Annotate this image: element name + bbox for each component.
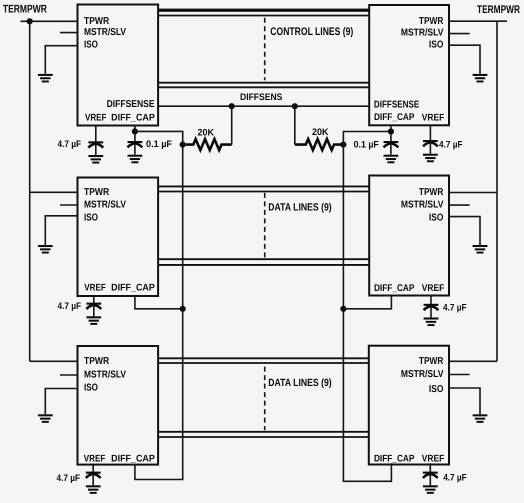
dashed bus divider bottom — [264, 367, 266, 431]
svg-text:VREF: VREF — [422, 113, 445, 124]
wire DIFF_CAP bus right vertical — [343, 132, 391, 482]
wire TERMPWR rail left — [29, 21, 31, 361]
wire DIFF_CAP U3 — [135, 296, 183, 309]
capacitor C3 0.1uF — [384, 141, 399, 163]
wire VREF U6 — [429, 463, 431, 472]
svg-text:ISO: ISO — [84, 213, 98, 224]
svg-text:VREF: VREF — [422, 283, 445, 294]
bus data lines middle bottom A — [158, 258, 369, 260]
bus data lines bottom bottom B — [158, 436, 369, 438]
ground ISO U1 — [38, 74, 53, 83]
wire ISO U4 — [449, 217, 480, 245]
resistor R1 20K — [186, 139, 232, 150]
bus control line lower A — [158, 82, 369, 84]
block U3 middle-left terminator — [78, 178, 159, 297]
wire DIFF_CAP U1 — [134, 126, 136, 143]
svg-text:DIFF_CAP: DIFF_CAP — [111, 454, 155, 465]
capacitor C8 4.7uF — [423, 472, 438, 494]
svg-text:DIFF_CAP: DIFF_CAP — [374, 454, 415, 465]
svg-text:DIFFSENSE: DIFFSENSE — [374, 100, 420, 111]
svg-text:VREF: VREF — [84, 454, 106, 465]
block U6 bottom-right terminator — [369, 346, 449, 465]
svg-text:DATA LINES (9): DATA LINES (9) — [268, 377, 331, 389]
svg-text:20K: 20K — [312, 127, 329, 138]
node dot DIFF_CAP U3 tap — [180, 306, 186, 312]
wire DIFFSENS net — [158, 105, 369, 107]
node dot TERMPWR left — [27, 18, 33, 24]
ground ISO U3 — [38, 245, 53, 254]
svg-text:CONTROL LINES (9): CONTROL LINES (9) — [270, 26, 353, 38]
capacitor C5 4.7uF — [86, 303, 101, 325]
block U1 top-left terminator — [78, 5, 159, 126]
block U4 middle-right terminator — [369, 176, 449, 296]
svg-text:DIFFSENSE: DIFFSENSE — [107, 99, 155, 110]
svg-text:DIFF_CAP: DIFF_CAP — [111, 113, 155, 124]
wire ISO U3 — [45, 216, 77, 245]
svg-text:TPWR: TPWR — [84, 356, 110, 367]
svg-text:TERMPWR: TERMPWR — [3, 3, 47, 15]
wire TPWR U1 — [20, 20, 77, 22]
bus control lines top pair — [158, 9, 369, 12]
ground ISO U5 — [38, 414, 53, 423]
svg-text:MSTR/SLV: MSTR/SLV — [84, 27, 126, 38]
wire DIFF_CAP U4 — [343, 296, 391, 309]
svg-text:TPWR: TPWR — [84, 16, 110, 27]
bus data lines middle bottom B — [158, 264, 369, 266]
svg-text:ISO: ISO — [429, 40, 444, 51]
wire R1 to DIFFSENS — [231, 106, 233, 144]
svg-text:4.7 µF: 4.7 µF — [439, 139, 463, 150]
svg-text:DIFF_CAP: DIFF_CAP — [374, 283, 415, 294]
svg-text:DATA LINES (9): DATA LINES (9) — [268, 202, 331, 214]
svg-text:VREF: VREF — [84, 283, 106, 294]
svg-text:TPWR: TPWR — [419, 356, 444, 367]
node dot DIFF_CAP U4 tap — [340, 306, 346, 312]
pin stub MSTR/SLV U6 — [449, 374, 470, 376]
wire TPWR U5 — [30, 360, 78, 362]
svg-text:ISO: ISO — [429, 384, 444, 395]
capacitor C6 4.7uF — [424, 304, 439, 326]
wire R2 to DIFFSENS — [294, 106, 296, 144]
bus data lines bottom top B — [158, 362, 369, 364]
wire VREF U5 — [92, 465, 94, 473]
node dot DIFFSENS left — [229, 103, 235, 109]
svg-text:TERMPWR: TERMPWR — [477, 4, 520, 16]
wire DIFF_CAP bus left vertical — [135, 131, 183, 479]
resistor R2 20K — [295, 139, 344, 150]
svg-text:0.1 µF: 0.1 µF — [354, 140, 379, 151]
svg-text:ISO: ISO — [429, 213, 444, 224]
node dot DIFF_CAP U2 junction — [388, 128, 394, 134]
svg-text:20K: 20K — [198, 128, 215, 139]
block U5 bottom-left terminator — [78, 346, 159, 465]
pin stub MSTR/SLV U3 — [60, 204, 78, 206]
wire ISO U2 — [449, 45, 480, 74]
wire TPWR U6 — [449, 360, 497, 362]
bus data lines middle top A — [158, 185, 369, 187]
wire ISO U1 — [45, 46, 77, 74]
capacitor C7 4.7uF — [86, 472, 101, 494]
dashed bus divider middle — [264, 193, 266, 258]
svg-text:4.7 µF: 4.7 µF — [443, 472, 467, 483]
bus control line lower B — [158, 86, 369, 88]
wire VREF U2 — [429, 125, 431, 141]
svg-text:DIFF_CAP: DIFF_CAP — [111, 283, 155, 294]
node dot DIFF_CAP U1 junction — [132, 128, 138, 134]
bus data lines bottom bottom A — [158, 431, 369, 433]
svg-text:DIFFSENS: DIFFSENS — [240, 92, 282, 103]
node dot resistor tap left — [180, 142, 186, 148]
ground ISO U2 — [473, 74, 488, 83]
svg-text:VREF: VREF — [422, 454, 445, 465]
svg-text:ISO: ISO — [84, 39, 98, 50]
bus data lines middle top B — [158, 191, 369, 193]
svg-text:TPWR: TPWR — [84, 187, 110, 198]
pin stub MSTR/SLV U5 — [60, 374, 78, 376]
block U2 top-right terminator — [369, 5, 449, 125]
pin stub MSTR/SLV U1 — [60, 32, 78, 34]
wire ISO U5 — [45, 389, 77, 415]
svg-text:4.7 µF: 4.7 µF — [443, 303, 467, 314]
wire TPWR U4 — [449, 192, 497, 194]
wire TERMPWR rail right — [496, 21, 498, 361]
svg-text:MSTR/SLV: MSTR/SLV — [401, 200, 444, 211]
capacitor C2 0.1uF — [127, 141, 142, 163]
svg-text:ISO: ISO — [84, 383, 98, 394]
svg-text:4.7 µF: 4.7 µF — [57, 473, 81, 484]
pin stub MSTR/SLV U2 — [449, 33, 470, 35]
svg-text:TPWR: TPWR — [419, 187, 444, 198]
wire VREF U4 — [430, 296, 432, 305]
node dot resistor tap right — [340, 142, 346, 148]
wire TPWR U3 — [30, 191, 78, 193]
capacitor C4 4.7uF — [423, 140, 438, 162]
wire ISO U6 — [449, 388, 480, 414]
pin stub MSTR/SLV U4 — [449, 204, 470, 206]
wire VREF U3 — [93, 296, 95, 304]
svg-text:4.7 µF: 4.7 µF — [58, 301, 82, 312]
wire TPWR U2 — [449, 20, 507, 22]
dashed bus divider top — [264, 18, 266, 81]
bus data lines bottom top A — [158, 357, 369, 359]
wire VREF U1 — [95, 126, 97, 143]
svg-text:DIFF_CAP: DIFF_CAP — [374, 112, 415, 123]
svg-text:4.7 µF: 4.7 µF — [58, 139, 82, 150]
capacitor C1 4.7uF — [88, 141, 103, 163]
svg-text:0.1 µF: 0.1 µF — [146, 139, 172, 150]
node dot DIFFSENS right — [292, 103, 298, 109]
wire DIFF_CAP U2 — [390, 125, 392, 142]
ground ISO U6 — [473, 414, 488, 423]
svg-text:TPWR: TPWR — [419, 16, 444, 27]
svg-text:MSTR/SLV: MSTR/SLV — [401, 28, 444, 39]
svg-text:MSTR/SLV: MSTR/SLV — [401, 369, 444, 380]
svg-text:VREF: VREF — [85, 113, 107, 124]
svg-text:MSTR/SLV: MSTR/SLV — [84, 200, 126, 211]
svg-text:MSTR/SLV: MSTR/SLV — [84, 370, 126, 381]
bus control line — [158, 15, 369, 17]
ground ISO U4 — [473, 245, 488, 254]
